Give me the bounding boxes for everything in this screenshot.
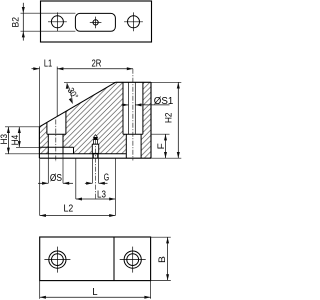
svg-text:B: B — [157, 256, 168, 263]
svg-text:ØS1: ØS1 — [154, 96, 174, 107]
right hole center line — [132, 69, 134, 161]
svg-text:H3: H3 — [0, 134, 10, 144]
section hatch: middle column — [63, 82, 126, 154]
bottom face (left part) — [39, 153, 126, 155]
top face — [116, 81, 152, 83]
right hole outer walls — [122, 82, 124, 134]
svg-text:2R: 2R — [91, 58, 101, 69]
svg-text:H2: H2 — [163, 113, 174, 123]
svg-text:ØS: ØS — [50, 173, 62, 184]
dimension B2 — [21, 12, 76, 14]
left through hole — [47, 134, 49, 154]
dimension F — [151, 133, 170, 135]
top view: right hole — [128, 16, 140, 28]
right edge — [150, 82, 152, 158]
stud shank below bottom — [93, 154, 95, 158]
top view: center slot — [75, 13, 115, 31]
dimension diam S — [47, 154, 49, 184]
bottom recess ceiling — [39, 146, 73, 148]
bottom view: plate outline — [40, 237, 151, 281]
svg-text:L1: L1 — [44, 59, 53, 70]
right hole inner walls (S1) — [128, 82, 130, 134]
top view: left hole — [51, 16, 63, 28]
section hatch: right column — [141, 82, 151, 158]
dimension L3 — [75, 158, 77, 199]
dimension L2 — [39, 158, 41, 215]
left hole center line — [55, 120, 57, 163]
30 degree angle dimension — [64, 81, 116, 83]
dimension L — [39, 281, 41, 299]
dimension H2 — [151, 81, 181, 83]
bottom recess right wall — [73, 147, 75, 154]
svg-text:B2: B2 — [11, 17, 22, 28]
30 deg sloped face — [39, 82, 115, 127]
top view: slot center hole (stud) — [93, 20, 98, 25]
bottom view: slope edge projection — [113, 237, 115, 281]
top view: plate outline — [41, 1, 152, 42]
dimension B — [151, 236, 171, 238]
dimension L1 — [39, 67, 41, 127]
svg-text:H4: H4 — [10, 134, 21, 145]
right hole lower counterbore — [125, 134, 127, 158]
left edge — [38, 127, 40, 158]
base plate bottom — [39, 157, 151, 159]
svg-text:L3: L3 — [97, 189, 106, 200]
dimension G — [91, 154, 93, 184]
bottom view: left counterbored hole — [49, 251, 66, 268]
stud center line — [95, 140, 97, 199]
dimension diam S1 — [121, 104, 128, 106]
bottom view: right counterbored hole — [124, 251, 141, 268]
dimension H4 — [16, 146, 39, 148]
svg-text:F: F — [156, 143, 167, 149]
svg-text:L2: L2 — [64, 203, 74, 214]
dimension H3 — [5, 126, 39, 128]
left counterbore — [46, 122, 48, 134]
section hatch: left column — [39, 122, 48, 153]
svg-text:G: G — [104, 172, 109, 183]
center stud / grub screw — [94, 135, 98, 138]
dimension 2R — [57, 68, 133, 70]
svg-text:L: L — [92, 287, 98, 298]
